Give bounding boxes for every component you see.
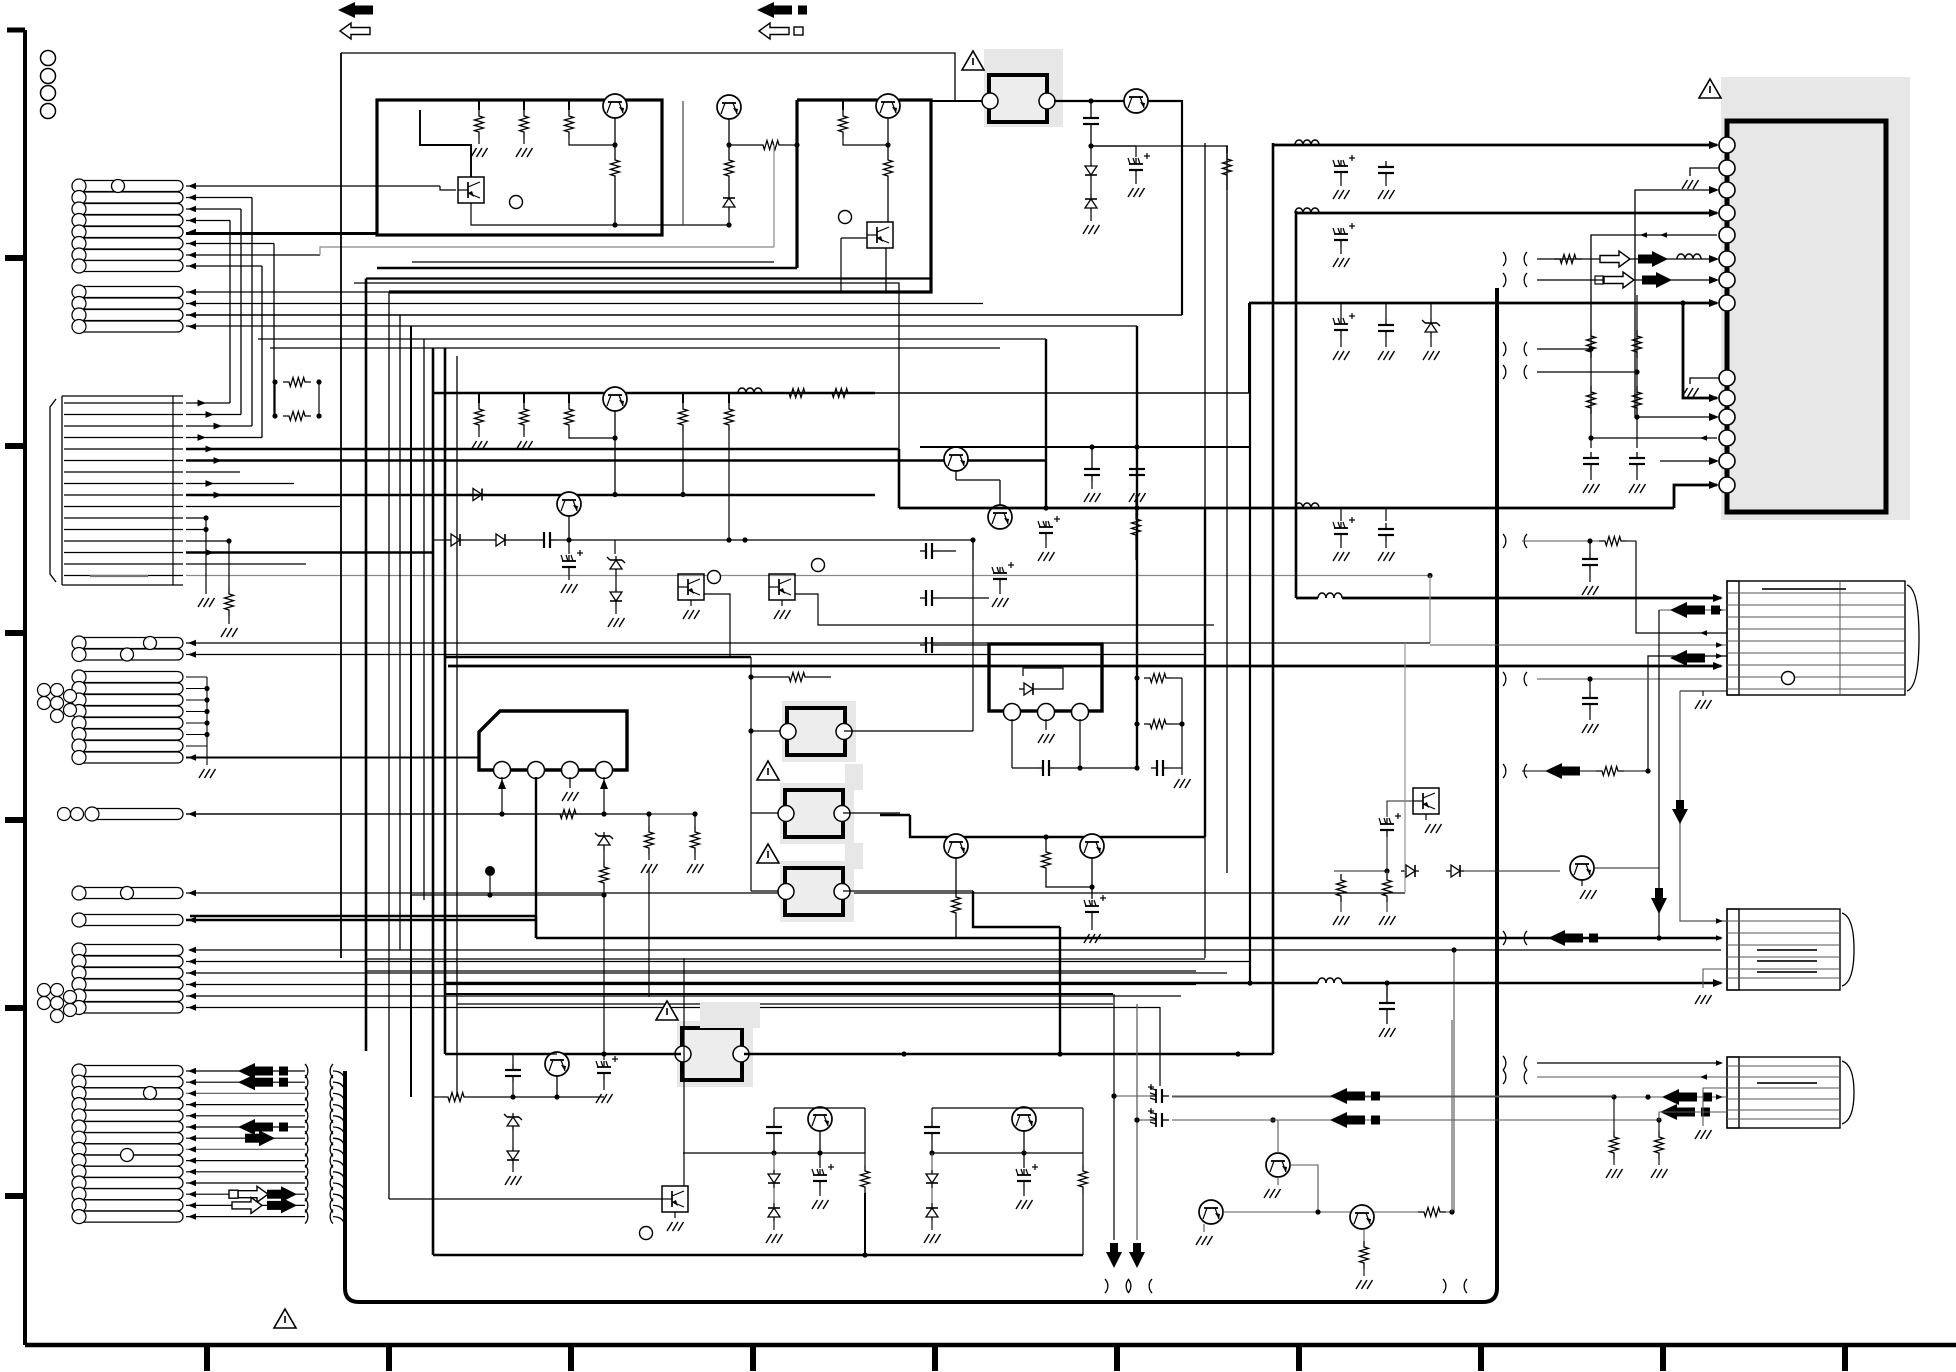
connector CN-H pills: [72, 1066, 183, 1077]
opto U7: [1413, 788, 1439, 814]
cluster2 rail: [932, 1107, 1083, 1109]
Q9 transistor: [944, 447, 968, 471]
connector CN-C body: [61, 396, 63, 585]
top wire y146: [1091, 145, 1228, 147]
B1 out wire: [615, 224, 729, 226]
center bus bundle: [190, 949, 1721, 951]
CN-H wires: [186, 1070, 305, 1072]
CN-C res pair: [283, 378, 311, 387]
IC pin7 wire row: [1537, 279, 1717, 281]
amp2 res1: [478, 393, 480, 403]
connector CN-D pills: [72, 638, 183, 649]
amp2 Q8: [557, 492, 581, 516]
relay RL4 wires: [751, 890, 778, 892]
border frame bottom rule with ticks: [25, 1343, 1956, 1348]
IC pin8 branch to pin10: [1683, 303, 1717, 398]
relay RL1 out wire: [1054, 100, 1134, 102]
warning triangle RL3: [757, 844, 779, 863]
U2 res pair: [1144, 674, 1172, 683]
cluster1 diodes: [773, 1153, 775, 1170]
B1 res3: [568, 100, 570, 110]
M1 wire r2: [1659, 609, 1727, 611]
right diode row: [1334, 870, 1387, 872]
B1 opto Q3: [458, 177, 484, 203]
legend arrow outline left A: [340, 23, 370, 39]
Q19 res: [1045, 837, 1047, 846]
Q4 diode: [728, 193, 730, 198]
motor M3 block: [1727, 1057, 1840, 1128]
cluster1 rail: [774, 1107, 865, 1109]
horizontal bus bundle: [186, 314, 1182, 316]
warning triangle RL1: [962, 51, 984, 70]
row 814 res: [554, 810, 582, 819]
U5 pin2 wire: [535, 777, 537, 938]
top node wire: [1091, 145, 1136, 147]
bottom cables: [1105, 1279, 1108, 1293]
amp2 rail: [433, 392, 875, 395]
warning triangle RL5: [656, 1001, 678, 1020]
M2 wire r2: [536, 937, 1721, 939]
cluster2 ecap: [1023, 1153, 1025, 1168]
amp2 rail2 diode: [468, 494, 473, 496]
connector CN-G pills: [72, 945, 183, 956]
M2 wire r1: [1680, 690, 1727, 692]
cluster2 cap: [931, 1121, 933, 1127]
CN-B wires: [186, 291, 389, 293]
B2 transistor Q5: [876, 94, 900, 118]
M2 ground: [1703, 969, 1727, 988]
M1 wire r7 cable: [1503, 672, 1506, 686]
thick wire 657: [445, 656, 751, 658]
relay RL3: [780, 783, 854, 844]
opto U3: [678, 574, 704, 600]
cluster2 diodes: [931, 1153, 933, 1170]
IC pin11 wire: [1637, 416, 1717, 418]
amp2 res3: [568, 393, 570, 403]
R column A: [1590, 330, 1592, 448]
U5 pin4 wire: [603, 777, 605, 814]
opto U4 wires: [795, 594, 1214, 625]
U2 bottom caps: [1011, 719, 1013, 768]
gray verticals down: [1113, 994, 1115, 1240]
Q11 transistor: [545, 1052, 569, 1076]
CN-C wires: [186, 402, 230, 404]
M1 wire r1 thick: [1296, 597, 1318, 600]
thick vertical x1137: [1136, 326, 1138, 768]
down arrows: [1110, 1243, 1118, 1253]
cluster1 res: [864, 1153, 866, 1165]
cable row pin group b: [1503, 365, 1506, 379]
Q17 transistor: [1570, 856, 1594, 880]
row 814 res3: [694, 814, 696, 826]
RL5 gray tab: [700, 1002, 760, 1028]
opto U6 wire: [389, 1198, 662, 1200]
IC pin9 ground: [1690, 378, 1719, 384]
row1097 zener: [512, 1113, 514, 1117]
vertical x1160: [1159, 1007, 1161, 1086]
Q19 ecap: [1091, 887, 1093, 899]
M3 wire r2 cable: [1503, 1070, 1506, 1084]
rail 508 filter: [1295, 503, 1303, 508]
row 814 zener: [603, 832, 605, 836]
IC pin13 wire: [1660, 460, 1717, 462]
IC pin8 wire bus: [1249, 302, 1717, 305]
M3 wire r4: [1172, 1119, 1659, 1121]
M1 ground: [1703, 691, 1727, 696]
amp2 node wire: [569, 539, 973, 541]
U7 ecap: [1386, 818, 1388, 824]
IC pin4 wire: [1296, 212, 1717, 215]
IC shield gray area: [1721, 77, 1910, 520]
relay RL1 box: [989, 75, 1047, 122]
Q4 base res: [728, 119, 730, 145]
B2 Q5 res: [887, 119, 889, 145]
amp2 Q7: [603, 387, 627, 411]
B2 opto out: [887, 182, 889, 222]
top loop wire: [341, 53, 955, 101]
cluster2 wire: [932, 1152, 1083, 1154]
Q4 res to right: [729, 144, 757, 146]
IC pin1 wire VCC: [1273, 144, 1717, 147]
relay col vertical: [750, 657, 752, 891]
M3 resistors: [1613, 1097, 1615, 1131]
relay RL4: [780, 861, 854, 922]
row1097 res: [442, 1093, 470, 1102]
IC pin12 wire: [1591, 437, 1717, 439]
cluster1 cap: [773, 1121, 775, 1127]
Q10 caps: [1045, 521, 1047, 527]
thick vertical x1273: [1272, 143, 1275, 1054]
relay RL2: [782, 701, 856, 762]
R column B: [1636, 295, 1638, 448]
rail 213 filter: [1295, 208, 1303, 213]
B1 res1: [478, 100, 480, 110]
CN-D wires: [186, 642, 1430, 644]
amp block2 outline: [389, 100, 931, 292]
amp block1 outline: [377, 100, 662, 235]
top diode1: [1090, 146, 1092, 162]
rail 837 path: [973, 891, 1060, 927]
IC U5 polygon: [479, 711, 627, 770]
legend arrow solid left A: [338, 2, 355, 18]
border frame left rule with ticks: [23, 30, 27, 1345]
IC pins: [1719, 137, 1735, 153]
connector CN-A pills: [72, 181, 183, 192]
CN-A wires: [186, 185, 440, 187]
B1 testpoint: [510, 196, 523, 209]
opto U6: [662, 1186, 688, 1212]
amp2 ecap: [568, 516, 570, 540]
ecap h2: [1150, 1119, 1156, 1121]
gray verticals right: [1404, 643, 1406, 893]
motor M1 block: [1727, 581, 1905, 695]
res 677 row: [751, 676, 783, 678]
amp2 res2: [523, 393, 525, 403]
cable bundle trunk wire: [345, 288, 1497, 1302]
relay RL2 wires: [751, 730, 780, 732]
Q10 transistor: [988, 505, 1012, 529]
top res right: [1226, 146, 1228, 153]
transistor Q1 top: [1124, 89, 1148, 113]
Q4 frame: [682, 101, 684, 225]
M3 wire r1 cable: [1503, 1056, 1506, 1070]
B1 res2: [523, 100, 525, 110]
thick vertical x1046: [1045, 339, 1047, 508]
Q14: [1266, 1153, 1290, 1177]
B1 Q2 emitter res: [614, 118, 616, 145]
M3 wire r3: [1172, 1096, 1727, 1098]
CN-C gnd wires: [205, 518, 207, 594]
relay RL5: [677, 1021, 753, 1087]
connector CN-D aux circles: [38, 684, 51, 697]
IC pin3 wire: [1635, 190, 1717, 418]
reference circles top-left: [41, 51, 56, 66]
CN-H cable breaks: [305, 1064, 308, 1078]
cluster1 Q12: [808, 1107, 832, 1131]
row 895 wire: [412, 894, 604, 896]
thick wire 916: [190, 915, 536, 917]
RL5 right wire: [744, 1053, 1273, 1055]
relay RL1 shield: [984, 49, 1063, 127]
CN-F wires: [186, 892, 1405, 894]
Q18 transistor: [944, 834, 968, 858]
amp2 res5: [728, 393, 730, 403]
connector CN-B pills: [72, 287, 183, 298]
cluster2 res: [1082, 1108, 1084, 1165]
right res pair: [1340, 871, 1342, 874]
wire y451: [920, 446, 1250, 448]
thick wire 507: [898, 449, 901, 508]
CN-H signal arrows: [238, 1063, 255, 1079]
M1 wire r6 thick: [448, 665, 1721, 668]
IC U2 box: [989, 644, 1102, 711]
U5 pins: [494, 762, 511, 779]
IC pin14 wire: [1674, 485, 1717, 508]
top ecap: [1135, 158, 1137, 164]
opto U3 wires: [972, 540, 974, 560]
M3 ground: [1703, 1088, 1727, 1126]
CN-A wire1 to opto: [440, 186, 456, 190]
vertical x1205: [1204, 143, 1206, 958]
B1 opto wires: [420, 110, 471, 177]
CN-A wire5 thick: [186, 232, 377, 235]
amp2 Q7 emitter: [614, 411, 616, 438]
warning triangle bottom: [274, 1309, 296, 1328]
B2 testpoint: [839, 211, 852, 224]
warning triangle IC: [1699, 79, 1721, 98]
bottom loop: [433, 1254, 1083, 1256]
center vertical bus: [340, 53, 342, 958]
CN-G wires: [186, 961, 1250, 963]
thick vertical x1250: [1249, 303, 1251, 983]
M1 wire r4: [1430, 644, 1727, 646]
IC pin2 ground: [1690, 168, 1719, 176]
motor M2 block: [1727, 909, 1840, 990]
relay gray tabs: [845, 764, 863, 790]
caps y472: [1091, 447, 1093, 463]
rail 143 with filter: [1272, 144, 1274, 146]
top diode2: [1090, 180, 1092, 194]
Q19 transistor: [1080, 834, 1104, 858]
U5 pin1 wire: [501, 777, 503, 814]
vert arrows right: [1658, 610, 1660, 938]
B1 transistor Q2: [603, 94, 627, 118]
wire 480: [955, 470, 957, 480]
RL5 left wire: [445, 1053, 681, 1055]
thick vertical x1296: [1295, 211, 1298, 598]
ecap h1: [1150, 1095, 1156, 1097]
M2 wire r3 vertical: [1453, 950, 1455, 1212]
M1 wire r5: [1648, 656, 1727, 771]
amp2 zener: [614, 540, 616, 554]
connector CN-E pill: [85, 809, 183, 820]
legend arrow solid left B: [757, 2, 774, 18]
warning triangle RL2: [757, 761, 779, 780]
U2 pin2 gnd: [1045, 719, 1047, 730]
cable row 541: [1503, 534, 1506, 548]
B2 opto Q6: [867, 222, 893, 248]
cluster1 ecap: [819, 1153, 821, 1168]
row 814 res2: [648, 814, 650, 826]
CN-A verticals: [229, 221, 231, 404]
C cap top: [1090, 101, 1092, 112]
Q16: [1350, 1205, 1374, 1229]
M2 wire r4 thick: [445, 982, 1318, 985]
amp2 coil: [738, 388, 746, 393]
amp2 diode row: [446, 539, 451, 541]
B2 res1: [842, 100, 844, 110]
Q11 cap: [512, 1054, 514, 1064]
Q11 ecap: [603, 1061, 605, 1067]
Q15: [1199, 1200, 1223, 1224]
opto U4: [769, 574, 795, 600]
cluster1 wire: [683, 1152, 865, 1154]
CN-E wire: [186, 813, 604, 815]
row 771: [1503, 764, 1506, 778]
M1 wire r3: [1636, 541, 1727, 633]
Q1 collector wire: [1148, 101, 1182, 315]
vertical x1227: [1226, 146, 1228, 873]
legend arrow outline left B: [759, 23, 789, 39]
amp2 res4: [682, 393, 684, 403]
junction big dot: [485, 866, 495, 876]
CN-A wire7 gray: [186, 254, 320, 256]
connector CN-F pills: [72, 888, 183, 899]
U5 pin3 gnd: [569, 777, 571, 788]
rail 303 filter: [1340, 318, 1342, 324]
wire 1096 right: [1172, 1095, 1614, 1097]
relay RL1 pins: [982, 93, 998, 109]
cable row pin group a: [1503, 342, 1506, 356]
cluster2 Q13: [1012, 1107, 1036, 1131]
IC outline: [1727, 121, 1886, 512]
IC pin5 wire: [1591, 235, 1717, 330]
relay RL3 wires: [751, 812, 778, 814]
CN-C gray vertical: [1429, 576, 1431, 644]
U2 diode: [1019, 688, 1024, 690]
Q4 transistor: [717, 95, 741, 119]
rail 837: [910, 815, 1205, 837]
trio wires: [1277, 1120, 1279, 1153]
wire 1120 right: [1172, 1119, 1452, 1121]
center h-caps: [920, 550, 926, 552]
U2 pins: [1004, 704, 1021, 721]
IC pin6 wire row: [1537, 258, 1717, 260]
res v right: [1135, 495, 1137, 513]
